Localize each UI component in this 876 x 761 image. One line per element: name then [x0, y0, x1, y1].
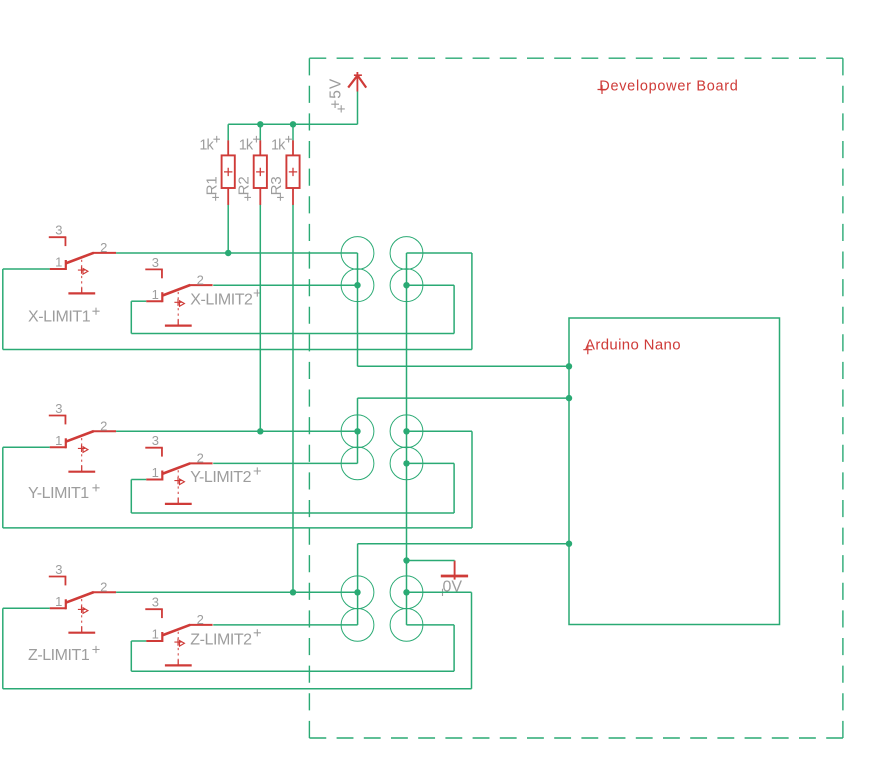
wire Y-LIMIT1 loop left: [2, 447, 4, 528]
svg-text:Z-LIMIT1: Z-LIMIT1: [28, 647, 90, 664]
wire Y-LIMIT2 loop right: [453, 463, 455, 513]
wire Y to Arduino: [358, 397, 570, 399]
svg-text:1k: 1k: [271, 137, 286, 153]
wire X-LIMIT2 loop right: [453, 285, 455, 333]
svg-text:1k: 1k: [239, 137, 254, 153]
label Z-LIMIT2: [190, 629, 261, 648]
node Z upper-left: [354, 589, 360, 595]
node X lower-left: [354, 282, 360, 288]
module U1 Arduino Nano (box): [569, 318, 780, 625]
wire Z-LIMIT1 loop left: [2, 608, 4, 689]
wire Y-LIMIT1 loop right: [471, 431, 473, 528]
wire R1 to X-LIMIT1 net: [227, 205, 229, 253]
svg-text:2: 2: [197, 612, 204, 627]
switch S6 Z-LIMIT2 (limit microswitch): [145, 595, 212, 666]
svg-text:+5V: +5V: [328, 78, 345, 109]
switch S1 X-LIMIT1 (limit microswitch): [49, 223, 116, 294]
wire vertical bus: [406, 253, 408, 625]
wire X-LIMIT1 pin2 to loop: [116, 252, 357, 254]
svg-text:3: 3: [152, 433, 159, 448]
wire Z-LIMIT1 pin2 to loop: [116, 591, 358, 593]
label R2: [236, 176, 253, 200]
wire X-LIMIT1 loop left: [2, 269, 4, 350]
resistor R3 (1k): [286, 140, 299, 205]
svg-text:1: 1: [152, 627, 159, 642]
switch S5 Z-LIMIT1 (limit microswitch): [49, 562, 116, 633]
node Y lower-right: [403, 460, 409, 466]
connector loop Z lower-right: [390, 609, 423, 642]
connector loop Z lower-left: [341, 609, 374, 642]
wire Y left column: [357, 398, 359, 463]
node Arduino Y: [566, 395, 572, 401]
ground 0V (supply bar): [441, 561, 468, 580]
wire Y-LIMIT2 pin1: [131, 479, 146, 481]
label Y-LIMIT1: [28, 484, 100, 502]
wire +5V rail: [228, 123, 357, 125]
svg-text:X-LIMIT2: X-LIMIT2: [190, 291, 253, 308]
connector loop Y upper-left: [341, 415, 374, 448]
wire R3 to Z-LIMIT1 net: [292, 205, 294, 592]
wire X-LIMIT2 loop left: [130, 301, 132, 333]
connector loop X upper-right: [390, 237, 423, 270]
board outline Developower Board (dashed frame): [309, 58, 843, 738]
label Developower Board: [598, 79, 739, 95]
wire Z-LIMIT1 loop right: [471, 592, 473, 689]
wire Z-LIMIT2 loop top: [407, 624, 455, 626]
label Z-LIMIT1: [28, 646, 100, 664]
wire X-LIMIT1 loop right: [471, 253, 473, 350]
wire X-LIMIT2 loop bottom: [131, 333, 454, 335]
svg-text:3: 3: [152, 255, 159, 270]
wire Z-LIMIT1 loop bottom: [3, 688, 472, 690]
label +5V: [328, 78, 345, 113]
wire Y-LIMIT2 loop bottom: [131, 512, 454, 514]
svg-text:2: 2: [100, 579, 107, 594]
node +5V/R2: [257, 121, 263, 127]
wire X-LIMIT2 pin1: [131, 300, 146, 302]
wire X left column: [357, 253, 359, 366]
wire Z-LIMIT2 loop right: [453, 625, 455, 671]
label 0V: [439, 579, 462, 597]
wire R2 to Y-LIMIT1 net: [259, 205, 261, 431]
svg-text:1k: 1k: [199, 137, 214, 153]
wire +5V drop: [357, 92, 359, 125]
svg-text:Developower Board: Developower Board: [599, 79, 738, 95]
wire X-LIMIT1 loop bottom: [3, 349, 472, 351]
wire +5V to R2: [259, 124, 261, 140]
label X-LIMIT2: [190, 289, 261, 308]
connector loop Y lower-right: [390, 447, 423, 480]
svg-text:3: 3: [152, 595, 159, 610]
label Arduino Nano: [583, 337, 681, 355]
svg-text:1: 1: [152, 287, 159, 302]
wire Z to Arduino: [358, 543, 569, 545]
switch S4 Y-LIMIT2 (limit microswitch): [145, 433, 212, 504]
label Y-LIMIT2: [190, 467, 261, 486]
connector loop Y upper-right: [390, 415, 423, 448]
wire Y-LIMIT2 loop top: [407, 462, 455, 464]
wire Y-LIMIT1 loop bottom: [3, 527, 472, 529]
svg-text:2: 2: [197, 272, 204, 287]
wire 0V tap: [407, 560, 455, 562]
wire X-LIMIT1 loop top: [407, 252, 472, 254]
node 0V tap: [403, 557, 409, 563]
node X lower-right: [403, 282, 409, 288]
wire Y-LIMIT2 pin2 to loop: [213, 462, 357, 464]
node R3/Z-LIMIT1: [290, 589, 296, 595]
wire X-LIMIT2 pin2 to loop: [213, 284, 357, 286]
wire +5V to R3: [292, 124, 294, 140]
svg-text:1: 1: [152, 465, 159, 480]
connector loop Y lower-left: [341, 447, 374, 480]
connector loop X lower-right: [390, 269, 423, 302]
label X-LIMIT1: [28, 308, 100, 326]
wire Z-LIMIT1 loop top: [407, 591, 472, 593]
svg-text:Y-LIMIT1: Y-LIMIT1: [28, 485, 89, 502]
node Arduino Z: [566, 541, 572, 547]
wire Y-LIMIT1 pin1: [3, 446, 50, 448]
wire X-LIMIT2 loop top: [407, 284, 455, 286]
svg-text:1: 1: [55, 594, 62, 609]
wire Z-LIMIT2 loop left: [130, 641, 132, 671]
svg-text:2: 2: [197, 451, 204, 466]
svg-text:2: 2: [100, 418, 107, 433]
value 1k of R3: [271, 136, 292, 153]
connector loop X lower-left: [341, 269, 374, 302]
connector loop Z upper-left: [341, 576, 374, 609]
wire Z-LIMIT2 loop bottom: [131, 670, 454, 672]
label R1: [203, 176, 220, 200]
connector loop Z upper-right: [390, 576, 423, 609]
wire Z left column: [357, 544, 359, 625]
wire Y-LIMIT1 pin2 to loop: [116, 430, 357, 432]
label R3: [268, 176, 285, 200]
wire Y-LIMIT1 loop top: [407, 430, 473, 432]
svg-text:1: 1: [55, 433, 62, 448]
value 1k of R2: [239, 136, 260, 153]
svg-text:Z-LIMIT2: Z-LIMIT2: [190, 631, 252, 648]
svg-text:3: 3: [55, 401, 62, 416]
svg-text:X-LIMIT1: X-LIMIT1: [28, 309, 91, 326]
wire X to Arduino: [358, 365, 570, 367]
power +5V (arrow symbol): [348, 72, 366, 92]
resistor R2 (1k): [254, 140, 267, 205]
node Y upper-left: [354, 428, 360, 434]
node Z upper-right: [403, 589, 409, 595]
svg-text:R1: R1: [203, 176, 220, 195]
resistor R1 (1k): [222, 140, 235, 205]
switch S2 X-LIMIT2 (limit microswitch): [145, 255, 212, 326]
svg-text:2: 2: [100, 240, 107, 255]
svg-text:Y-LIMIT2: Y-LIMIT2: [190, 469, 251, 486]
switch S3 Y-LIMIT1 (limit microswitch): [49, 401, 116, 472]
node +5V/R3: [290, 121, 296, 127]
node Y upper-right: [403, 428, 409, 434]
wire X-LIMIT1 pin1: [3, 268, 50, 270]
node Arduino X: [566, 363, 572, 369]
wire Z-LIMIT2 pin2 to loop: [213, 624, 357, 626]
svg-text:3: 3: [55, 223, 62, 238]
node R1/X-LIMIT1: [225, 250, 231, 256]
wire Z-LIMIT2 pin1: [131, 640, 146, 642]
svg-text:1: 1: [55, 255, 62, 270]
svg-text:Arduino Nano: Arduino Nano: [585, 337, 681, 354]
svg-text:R3: R3: [268, 176, 285, 195]
wire Y-LIMIT2 loop left: [130, 480, 132, 514]
svg-text:R2: R2: [236, 176, 253, 195]
wire Z-LIMIT1 pin1: [3, 607, 50, 609]
svg-text:3: 3: [55, 562, 62, 577]
wire +5V to R1: [227, 124, 229, 140]
node R2/Y-LIMIT1: [257, 428, 263, 434]
connector loop X upper-left: [341, 237, 374, 270]
value 1k of R1: [199, 136, 220, 153]
